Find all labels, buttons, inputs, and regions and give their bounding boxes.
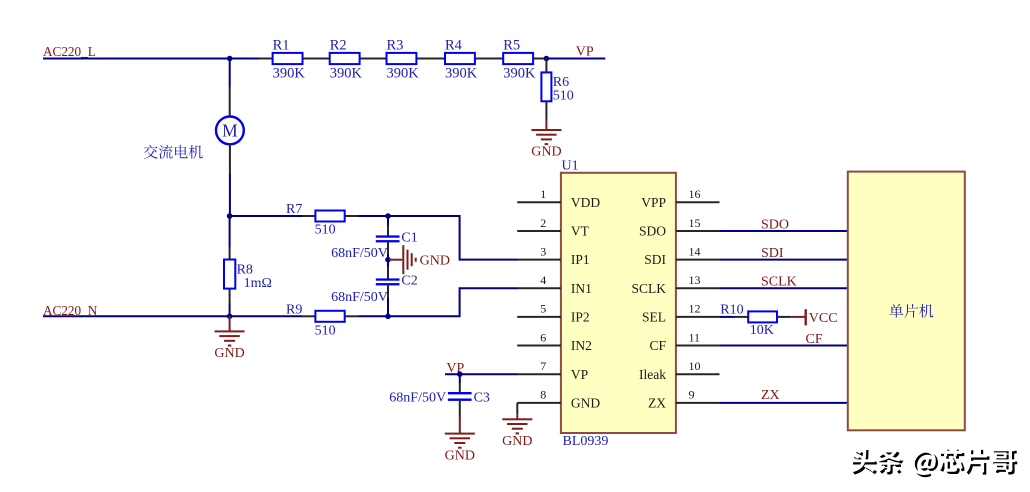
wire C2 top (blue) [387,260,389,267]
capacitor C3 [448,392,472,394]
svg-text:12: 12 [689,302,701,316]
ground stem under R6 [545,119,547,130]
wire CF [720,345,848,347]
ground symbol under C3 [445,433,475,435]
svg-text:SCLK: SCLK [631,281,666,296]
watermark 头条 @芯片哥 [851,448,1018,478]
svg-text:13: 13 [689,273,701,287]
svg-text:GND: GND [214,346,244,361]
resistor R2 [330,53,360,64]
svg-text:C3: C3 [474,391,490,406]
svg-text:IP1: IP1 [571,252,590,267]
svg-text:CF: CF [649,338,666,353]
pin 9 ZX (right) [676,402,720,404]
pin 11 CF (right) [676,345,720,347]
svg-text:IP2: IP2 [571,310,590,325]
svg-text:7: 7 [540,359,546,373]
svg-text:390K: 390K [445,65,478,81]
wire VP to pin7 [445,373,518,375]
svg-text:SDO: SDO [639,224,666,239]
wire R7 left [230,215,302,217]
motor M circle [216,116,244,144]
pin 14 SDI (right) [676,259,720,261]
svg-text:M: M [222,121,238,141]
node junction VP top [544,56,550,62]
svg-text:C1: C1 [401,231,417,246]
ground symbol pin8 [502,418,532,420]
wire to IN1 corner [388,288,518,316]
pin 13 SCLK (right) [676,287,720,289]
wire C3 top lead [459,384,461,393]
wire R7 right lead [345,215,359,217]
wire ZX [720,402,848,404]
wire R9 right lead [345,315,359,317]
resistor R3 [387,53,417,64]
wire C2 top lead [387,267,389,279]
svg-text:ZX: ZX [761,388,780,403]
svg-text:390K: 390K [387,65,420,81]
svg-text:510: 510 [553,89,574,104]
wire R9 left lead [302,315,315,317]
pin 7 VP (left) [517,373,561,375]
wire motor bottom lead [229,144,231,174]
pin 15 SDO (right) [676,230,720,232]
svg-text:510: 510 [315,223,336,238]
resistor R9 [315,311,344,322]
node junction C2 bottom [385,314,391,320]
wire R8 bottom lead [229,289,231,303]
resistor R1 [273,53,303,64]
svg-text:16: 16 [689,187,701,201]
svg-text:VDD: VDD [571,195,600,210]
svg-text:11: 11 [689,330,701,344]
wire C1 to mid junction [387,254,389,260]
wire SDO [720,230,848,232]
wire C2 to AC220_N [387,298,389,316]
resistor R4 [445,53,475,64]
wire R8 top [229,216,231,247]
svg-text:10K: 10K [750,323,774,338]
label 单片机 [889,304,933,318]
power VCC lead [792,316,805,318]
wire C3 bottom lead [459,401,461,418]
svg-text:SDI: SDI [644,252,666,267]
pin 12 SEL (right) [676,316,720,318]
svg-text:3: 3 [540,244,546,258]
svg-text:R1: R1 [273,37,290,53]
pin 16 VPP (right) [676,201,720,203]
svg-text:510: 510 [315,324,336,339]
wire R10 right lead [777,316,792,318]
svg-text:R9: R9 [286,302,302,317]
svg-text:9: 9 [689,388,695,402]
wire C3 top (blue) [459,374,461,383]
svg-text:IN1: IN1 [571,281,592,296]
resistor R7 [315,211,344,222]
node junction AC220_N R8 [227,314,233,320]
capacitor C2 [376,278,400,280]
svg-text:ZX: ZX [648,395,666,410]
svg-text:R3: R3 [387,37,404,53]
svg-text:SDI: SDI [761,246,784,261]
wire C2 bottom lead [387,285,389,298]
svg-text:VP: VP [576,45,594,60]
svg-text:2: 2 [540,216,546,230]
ground stem under C3 [459,418,461,434]
svg-text:1mΩ: 1mΩ [244,276,272,291]
svg-text:GND: GND [531,145,561,160]
wire SCLK [720,287,848,289]
wire C1 bottom lead [387,242,389,254]
svg-text:390K: 390K [273,65,306,81]
svg-text:10: 10 [689,359,701,373]
node junction VP C3 [457,371,463,377]
svg-text:14: 14 [689,244,701,258]
svg-text:BL0939: BL0939 [563,434,609,449]
ground symbol under R6 [531,129,561,131]
wire R8 to AC220_N [229,303,231,316]
svg-text:VT: VT [571,224,590,239]
wire pin8 to ground corner [516,403,518,414]
ground symbol under AC220_N [215,330,245,332]
pin 1 VDD (left) [517,201,561,203]
ground lead (rotated) [389,259,402,261]
svg-text:SDO: SDO [761,217,789,232]
resistor R10 [748,311,777,322]
svg-text:Ileak: Ileak [639,367,666,382]
svg-text:SEL: SEL [642,310,666,325]
svg-text:R2: R2 [330,37,347,53]
wire R6 bottom lead [545,101,547,119]
wire motor to R7 junction [229,174,231,216]
power VCC bar [805,309,807,325]
svg-text:C2: C2 [401,274,417,289]
svg-text:6: 6 [540,330,546,344]
wire R7 to C1 junction [359,215,389,217]
pin 3 IP1 (left) [517,259,561,261]
wire R7 left lead [302,215,315,217]
svg-text:VP: VP [571,367,588,382]
svg-text:VCC: VCC [809,311,838,326]
svg-text:68nF/50V: 68nF/50V [331,290,388,305]
svg-text:15: 15 [689,216,701,230]
wire R8 top lead [229,247,231,260]
pin 2 VT (left) [517,230,561,232]
svg-text:390K: 390K [330,65,363,81]
svg-text:IN2: IN2 [571,338,592,353]
node junction C1 top [385,213,391,219]
label 交流电机 [144,145,203,159]
svg-text:GND: GND [571,395,600,410]
wire SDI [720,259,848,261]
svg-text:R10: R10 [720,302,743,317]
svg-text:390K: 390K [503,65,536,81]
wire AC220_L horizontal [43,58,259,60]
pin 6 IN2 (left) [517,345,561,347]
wire R6 top lead [545,59,547,73]
resistor R8 [224,260,235,289]
wire C1 top lead [387,225,389,236]
svg-text:68nF/50V: 68nF/50V [331,246,388,261]
svg-text:SCLK: SCLK [761,275,797,290]
svg-text:GND: GND [445,448,475,463]
svg-text:4: 4 [540,273,546,287]
svg-text:U1: U1 [562,159,579,174]
wire SEL to R10 (blue) [720,316,734,318]
svg-text:1: 1 [540,187,546,201]
node junction C1-C2 [385,257,391,263]
pin 10 Ileak (right) [676,373,720,375]
ground stem pin8 [516,414,518,419]
svg-text:68nF/50V: 68nF/50V [389,391,446,406]
svg-text:R5: R5 [503,37,520,53]
pin 4 IN1 (left) [517,287,561,289]
resistor R6 [541,72,551,101]
svg-text:AC220_L: AC220_L [43,44,96,59]
node junction R7 branch [227,213,233,219]
svg-text:8: 8 [540,388,546,402]
wire C1 top (blue) [387,216,389,225]
svg-text:5: 5 [540,302,546,316]
ground stem under AC220_N [229,316,231,331]
svg-text:GND: GND [420,254,450,269]
wire motor top lead [229,87,231,117]
IC U1 body [561,173,676,433]
svg-text:GND: GND [502,434,532,449]
pin 5 IP2 (left) [517,316,561,318]
wire R9 to C2 junction [359,315,389,317]
wire junction to motor (blue) [229,59,231,88]
svg-text:CF: CF [806,332,823,347]
svg-text:R4: R4 [445,37,463,53]
wire to IP1 corner [388,216,518,260]
pin 8 GND (left) [517,402,561,404]
wire to VP [546,58,605,60]
node junction top-left [227,56,233,62]
wire top rail between resistors [259,58,545,60]
microcontroller box [848,172,965,431]
capacitor C1 [376,235,400,237]
svg-text:VPP: VPP [641,195,666,210]
svg-text:R7: R7 [286,202,302,217]
wire AC220_N horizontal [43,315,302,317]
resistor R5 [503,53,533,64]
ground symbol rotated right [402,245,404,274]
wire R10 left lead [734,316,749,318]
